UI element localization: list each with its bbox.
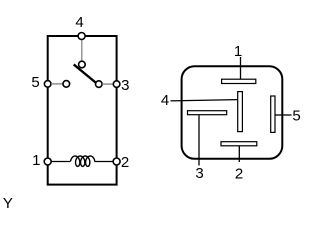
wire pin 5 to open contact (51, 83, 63, 85)
svg-text:5: 5 (292, 108, 300, 125)
terminal circle pin 2 (113, 158, 120, 165)
wire contact to pin 3 (102, 83, 113, 85)
svg-text:5: 5 (31, 74, 39, 91)
switch pivot circle (79, 61, 86, 68)
svg-text:4: 4 (161, 92, 169, 109)
svg-text:3: 3 (195, 165, 203, 182)
open contact circle (pin 5 side) (63, 81, 70, 88)
svg-text:2: 2 (121, 154, 129, 171)
leader line pin 5 (276, 114, 292, 116)
leader line pin 2 (238, 146, 240, 162)
leader line pin 4 (171, 100, 238, 101)
wire from pin 4 terminal to switch pivot (81, 40, 83, 62)
wire coil to pin 2 (94, 161, 113, 163)
terminal circle pin 1 (44, 158, 51, 165)
relay body outline (left schematic) (48, 36, 117, 185)
terminal circle pin 5 (44, 81, 51, 88)
blade terminal 3 (188, 111, 227, 115)
wire pin 1 to coil (51, 161, 70, 163)
blade terminal 4 (238, 92, 243, 132)
svg-text:2: 2 (235, 165, 243, 182)
blade terminal 5 (271, 96, 275, 132)
closed contact circle (pin 3 side) (96, 81, 103, 88)
blade terminal 1 (222, 79, 256, 83)
terminal circle pin 4 (78, 33, 85, 40)
terminal circle pin 3 (113, 81, 120, 88)
svg-text:1: 1 (32, 152, 40, 169)
svg-text:4: 4 (75, 14, 83, 31)
blade terminal 2 (221, 142, 257, 146)
switch arm (movable contact toward pin 3) (74, 64, 97, 83)
leader line pin 1 (240, 57, 242, 80)
relay case (pin layout view) (182, 66, 283, 159)
svg-text:3: 3 (121, 77, 129, 94)
leader line pin 3 (198, 115, 200, 165)
svg-text:Y: Y (3, 195, 13, 210)
relay coil L (71, 156, 95, 166)
